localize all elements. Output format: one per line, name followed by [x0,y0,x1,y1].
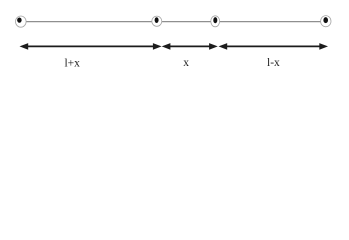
ball 2 [152,16,162,26]
ball 1 [15,16,26,27]
dimension arrow segment 1-x [219,43,329,50]
ball 3 [211,16,220,27]
svg-text:l+x: l+x [64,57,80,69]
svg-text:l-x: l-x [267,57,280,69]
dimension arrow segment 1+x [20,43,162,50]
ball 4 [321,16,331,27]
wire top line [21,21,326,23]
svg-text:x: x [183,57,189,69]
dimension arrow segment x [162,43,218,50]
